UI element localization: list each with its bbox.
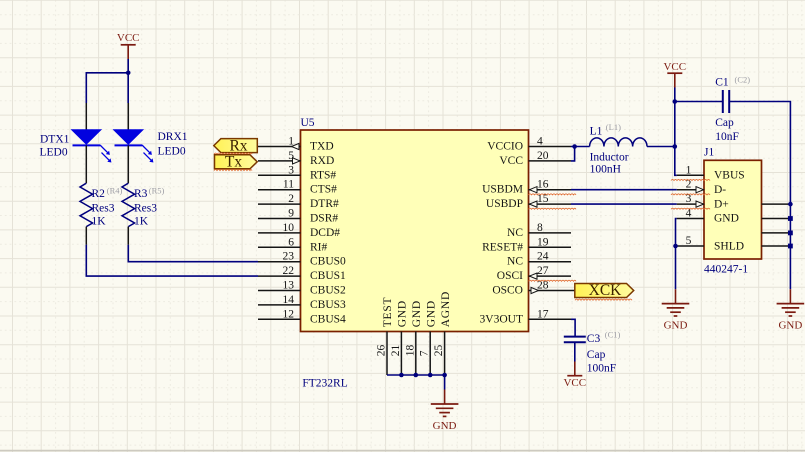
ground GND under U5 (431, 390, 459, 433)
designator (R5) (149, 186, 165, 196)
svg-text:C3: C3 (587, 333, 601, 345)
pin 22 CBUS1 (U5 left) (258, 265, 346, 282)
junction dot GND bus 1 (399, 373, 404, 378)
label 440247-1 (704, 264, 748, 276)
power symbol VCC top-left (117, 32, 140, 59)
svg-text:DTX1: DTX1 (40, 133, 70, 145)
wire SHLD to ground (675, 246, 677, 289)
svg-text:RI#: RI# (310, 241, 328, 253)
pin 12 CBUS4 (U5 left) (258, 308, 346, 325)
svg-text:23: 23 (283, 251, 295, 263)
svg-text:NC: NC (507, 227, 523, 239)
resistor R3 (122, 183, 135, 245)
port XCK (575, 282, 634, 299)
pin 14 CBUS3 (U5 left) (258, 294, 346, 311)
svg-text:CBUS0: CBUS0 (310, 256, 346, 268)
pin 11 CTS# (U5 left) (258, 179, 337, 196)
wire to DTX1 anode (86, 73, 128, 103)
svg-text:14: 14 (283, 294, 295, 306)
pin 15 USBDP (U5 right) (486, 193, 571, 210)
svg-text:16: 16 (537, 179, 549, 191)
svg-text:GND: GND (411, 300, 423, 327)
wire VCC pin20 jog (571, 147, 575, 161)
svg-text:R2: R2 (92, 188, 106, 200)
svg-text:DTR#: DTR# (310, 198, 339, 210)
inductor L1 (590, 138, 647, 147)
arrow OSCO output (531, 287, 539, 293)
arrow D- input (696, 187, 704, 193)
junction square shield 2 (788, 216, 793, 221)
svg-text:DRX1: DRX1 (158, 131, 188, 143)
svg-text:GND: GND (397, 300, 409, 327)
wire 3V3OUT to C3 (571, 319, 575, 336)
svg-text:TEST: TEST (382, 297, 394, 328)
squiggle USBDM U5 side (529, 194, 577, 195)
wire R2 to CBUS1 (86, 245, 258, 276)
svg-text:USBDM: USBDM (482, 184, 523, 196)
designator (C1) (605, 330, 621, 340)
junction square shield 4 (788, 244, 793, 249)
svg-text:8: 8 (537, 222, 543, 234)
junction dot L1 right (673, 144, 678, 149)
junction dot shield top (788, 202, 793, 207)
squiggle OSCI U5 side (529, 280, 577, 281)
svg-text:CBUS4: CBUS4 (310, 313, 346, 325)
pin 20 VCC (U5 right) (499, 150, 571, 167)
svg-text:17: 17 (537, 308, 549, 320)
svg-text:22: 22 (283, 265, 295, 277)
squiggle under Rx (214, 153, 252, 154)
svg-text:6: 6 (288, 236, 294, 248)
squiggle D+ J1 side (671, 208, 710, 209)
pin 4 GND (J1) (677, 208, 739, 225)
junction square shield 3 (788, 231, 793, 236)
wire USBDP to D+ (571, 203, 677, 205)
pin 1 VBUS (J1) (677, 164, 745, 181)
ground GND under J1 (662, 289, 690, 331)
svg-text:1K: 1K (92, 216, 107, 228)
junction dot GND bus 3 (428, 373, 433, 378)
pin shield pad 2 (J1 right) (762, 218, 791, 220)
svg-text:(R5): (R5) (149, 186, 165, 196)
svg-text:Cap: Cap (587, 349, 606, 361)
pin 17 3V3OUT (U5 right) (480, 308, 571, 325)
svg-text:J1: J1 (704, 147, 714, 159)
svg-text:4: 4 (537, 136, 543, 148)
svg-text:CBUS2: CBUS2 (310, 285, 346, 297)
svg-text:GND: GND (714, 213, 739, 225)
pin 26 TEST (U5 bottom) (376, 297, 395, 375)
svg-text:AGND: AGND (440, 291, 452, 327)
designator (C2) (735, 74, 751, 84)
wire VCC node down to L1 node (674, 102, 676, 147)
svg-text:1: 1 (686, 164, 692, 176)
squiggle under Tx (214, 170, 252, 171)
svg-text:440247-1: 440247-1 (704, 264, 748, 276)
svg-text:(R4): (R4) (107, 186, 123, 196)
pin 21 GND (U5 bottom) (390, 300, 409, 375)
pin 28 OSCO (U5 right) (492, 280, 571, 297)
svg-text:26: 26 (376, 345, 388, 357)
svg-text:FT232RL: FT232RL (302, 378, 347, 390)
label J1 (704, 147, 714, 159)
pin 2 D- (J1) (677, 179, 727, 196)
pin 13 CBUS2 (U5 left) (258, 280, 346, 297)
svg-text:VCC: VCC (117, 32, 140, 44)
svg-text:CTS#: CTS# (310, 184, 337, 196)
wire C1 to right rail (729, 102, 790, 203)
svg-text:D-: D- (714, 184, 726, 196)
svg-text:13: 13 (283, 280, 295, 292)
pin 7 GND (U5 bottom) (419, 300, 438, 375)
IC U5 FT232RL body (301, 130, 529, 332)
pin 19 RESET# (U5 right) (482, 236, 571, 253)
junction dot GND bus 4 (442, 373, 447, 378)
pin shield pad 4 (J1 right) (762, 245, 791, 247)
ground GND bottom-right (777, 289, 805, 331)
power symbol VCC bottom (563, 362, 586, 389)
LED DRX1 (114, 103, 154, 183)
svg-text:C1: C1 (715, 76, 729, 88)
svg-text:Inductor: Inductor (590, 151, 629, 163)
svg-text:Tx: Tx (225, 154, 242, 171)
label R3 (134, 188, 157, 227)
svg-text:100nH: 100nH (590, 164, 621, 176)
label FT232RL (302, 378, 347, 390)
arrow OSCI input (530, 273, 538, 279)
svg-text:VCC: VCC (499, 155, 523, 167)
pin 2 DTR# (U5 left) (258, 193, 339, 210)
port Rx (214, 138, 257, 155)
junction dot GND bus 2 (414, 373, 419, 378)
arrow D+ input (696, 201, 704, 207)
junction dot at VCC node (126, 71, 131, 76)
svg-text:19: 19 (537, 236, 549, 248)
label L1 (590, 125, 629, 175)
label DRX1 (158, 131, 188, 157)
svg-text:3V3OUT: 3V3OUT (480, 313, 523, 325)
svg-text:2: 2 (288, 193, 294, 205)
svg-text:100nF: 100nF (587, 362, 616, 374)
svg-text:OSCI: OSCI (497, 270, 523, 282)
svg-text:20: 20 (537, 150, 549, 162)
svg-text:GND: GND (778, 320, 802, 332)
pin 3 D+ (J1) (677, 193, 729, 210)
pin 27 OSCI (U5 right) (497, 265, 571, 282)
svg-text:Rx: Rx (229, 138, 247, 155)
svg-text:OSCO: OSCO (492, 285, 523, 297)
svg-text:D+: D+ (714, 198, 729, 210)
wire VCCIO to L1 (571, 146, 590, 148)
svg-text:1K: 1K (134, 216, 149, 228)
svg-text:SHLD: SHLD (714, 241, 744, 253)
svg-text:11: 11 (283, 179, 294, 191)
svg-text:DCD#: DCD# (310, 227, 340, 239)
svg-text:RESET#: RESET# (482, 241, 523, 253)
wire R3 to CBUS0 (128, 245, 258, 262)
svg-text:3: 3 (288, 164, 294, 176)
svg-text:DSR#: DSR# (310, 213, 338, 225)
wire VCC stem to junction (127, 59, 129, 73)
arrow RXD input (293, 158, 301, 164)
label DTX1 (40, 133, 70, 158)
wire junction to C1 (675, 101, 723, 103)
svg-text:GND: GND (664, 320, 688, 332)
wire L1 to VBUS rail (647, 146, 675, 148)
wire OSCO to XCK (571, 290, 575, 292)
pin 5 RXD (U5 left) (258, 150, 334, 167)
svg-text:Cap: Cap (715, 117, 734, 129)
svg-text:(C2): (C2) (735, 74, 751, 84)
wire VCC to junction (674, 88, 676, 102)
wire GND bus under U5 (387, 375, 445, 390)
port Tx (215, 154, 258, 171)
svg-text:Res3: Res3 (92, 202, 115, 214)
LED DTX1 (72, 103, 112, 183)
squiggle USBDP U5 side (529, 208, 577, 209)
pin 5 SHLD (J1) (676, 235, 745, 253)
designator (R4) (107, 186, 123, 196)
label U5 (301, 117, 315, 129)
svg-text:R3: R3 (134, 188, 148, 200)
svg-text:USBDP: USBDP (486, 198, 523, 210)
svg-text:Res3: Res3 (134, 202, 157, 214)
pin 18 GND (U5 bottom) (404, 300, 423, 375)
svg-text:L1: L1 (590, 125, 603, 137)
svg-text:RXD: RXD (310, 155, 334, 167)
label R2 (92, 188, 115, 227)
pin shield pad 3 (J1 right) (762, 232, 791, 234)
pin 1 TXD (U5 left) (258, 136, 334, 153)
svg-text:GND: GND (433, 420, 457, 432)
svg-text:10nF: 10nF (715, 131, 739, 143)
wire L1 node down to VBUS (675, 147, 677, 176)
svg-text:TXD: TXD (310, 141, 334, 153)
pin shield pad 1 (J1 right) (762, 203, 791, 205)
svg-text:18: 18 (404, 345, 416, 357)
svg-text:7: 7 (419, 350, 431, 356)
wire J1 shield rail (789, 202, 791, 289)
pin 23 CBUS0 (U5 left) (258, 251, 346, 268)
label C3 (587, 333, 616, 375)
arrow USBDM input (530, 187, 538, 193)
svg-text:RTS#: RTS# (310, 169, 336, 181)
svg-text:21: 21 (390, 345, 402, 357)
resistor R2 (80, 183, 93, 245)
svg-text:CBUS1: CBUS1 (310, 270, 346, 282)
wire C3 down (574, 342, 576, 361)
label C1 (715, 76, 739, 143)
svg-text:VCCIO: VCCIO (487, 141, 523, 153)
pin 4 VCCIO (U5 right) (487, 136, 571, 153)
squiggle D- J1 side (671, 194, 710, 195)
svg-text:5: 5 (686, 235, 692, 247)
svg-text:XCK: XCK (589, 282, 623, 299)
svg-text:NC: NC (507, 256, 523, 268)
wire USBDM to D- (571, 189, 677, 191)
svg-text:25: 25 (433, 345, 445, 357)
pin 8 NC (U5 right) (507, 222, 571, 239)
power symbol VCC top-right (663, 61, 686, 88)
squiggle under XCK (575, 299, 632, 300)
squiggle VBUS J1 side (671, 179, 710, 180)
junction dot VCC right (673, 99, 678, 104)
junction dot VCCIO/VCC (572, 144, 577, 149)
pin 16 USBDM (U5 right) (482, 179, 571, 196)
svg-text:(L1): (L1) (606, 122, 621, 132)
svg-text:GND: GND (425, 300, 437, 327)
pin 24 NC (U5 right) (507, 251, 571, 268)
svg-text:LED0: LED0 (158, 145, 186, 157)
pin 25 AGND (U5 bottom) (433, 291, 452, 375)
pin 9 DSR# (U5 left) (258, 208, 338, 225)
svg-text:10: 10 (283, 222, 295, 234)
junction dot SHLD (673, 244, 678, 249)
svg-text:12: 12 (283, 308, 295, 320)
svg-text:(C1): (C1) (605, 330, 621, 340)
wire to DRX1 anode (127, 73, 129, 103)
svg-text:9: 9 (288, 208, 294, 220)
arrow TXD output (292, 143, 300, 149)
pin 3 RTS# (U5 left) (258, 164, 336, 181)
svg-text:CBUS3: CBUS3 (310, 299, 346, 311)
svg-text:24: 24 (537, 251, 549, 263)
arrow USBDP input (530, 201, 538, 207)
svg-text:VBUS: VBUS (714, 170, 745, 182)
pin 10 DCD# (U5 left) (258, 222, 340, 239)
svg-text:U5: U5 (301, 117, 315, 129)
capacitor C3 (564, 337, 586, 343)
capacitor C1 (723, 90, 729, 113)
connector J1 body (704, 160, 762, 259)
svg-text:VCC: VCC (663, 61, 686, 73)
designator (L1) (606, 122, 621, 132)
svg-text:VCC: VCC (563, 377, 586, 389)
pin 6 RI# (U5 left) (258, 236, 328, 253)
svg-text:LED0: LED0 (40, 146, 68, 158)
svg-text:27: 27 (537, 265, 549, 277)
wire GND pin4 down (676, 219, 677, 247)
